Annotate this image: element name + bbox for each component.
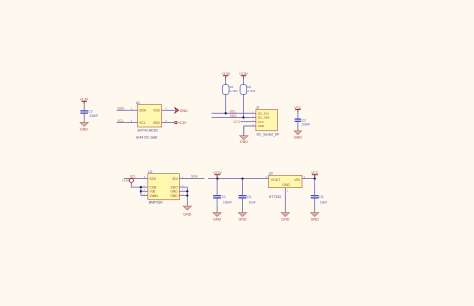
svg-text:U2: U2 xyxy=(148,170,152,174)
capacitor C4 xyxy=(239,196,247,198)
svg-text:J1: J1 xyxy=(256,106,260,110)
svg-text:SDI: SDI xyxy=(172,177,178,181)
junction xyxy=(225,112,227,114)
resistor R1 xyxy=(222,85,229,95)
junction xyxy=(216,177,218,179)
wire U3 GND pin xyxy=(284,188,286,213)
svg-text:C1: C1 xyxy=(222,195,226,199)
ground (C1) xyxy=(213,213,221,222)
wire xyxy=(242,198,244,212)
wire xyxy=(83,104,85,111)
power VCC (C2) xyxy=(294,106,302,112)
ground (C3) xyxy=(80,122,88,131)
svg-text:10uF: 10uF xyxy=(248,201,255,205)
svg-text:GND: GND xyxy=(240,140,248,144)
regulator U3 body xyxy=(269,175,302,187)
wire U3 VIN to VCC xyxy=(302,178,315,180)
capacitor C5 xyxy=(311,196,319,198)
svg-text:+3.3V: +3.3V xyxy=(79,97,89,101)
svg-text:VCC: VCC xyxy=(311,171,319,175)
svg-text:GND: GND xyxy=(180,109,188,113)
wire xyxy=(242,78,244,85)
wire xyxy=(225,78,227,85)
wire vertical tie xyxy=(140,187,142,195)
svg-text:VDD: VDD xyxy=(153,121,161,125)
ground (C4) xyxy=(238,213,246,222)
svg-text:+3.3V: +3.3V xyxy=(213,171,223,175)
svg-text:C3: C3 xyxy=(88,110,92,114)
svg-text:10uF: 10uF xyxy=(320,201,327,205)
op-amp U1 body xyxy=(138,105,162,127)
wire xyxy=(297,122,299,131)
transistor U2 body xyxy=(148,174,179,200)
svg-text:VOUT: VOUT xyxy=(271,178,280,182)
svg-text:GND: GND xyxy=(239,218,247,222)
svg-text:VIN: VIN xyxy=(294,178,300,182)
svg-text:SHT4x-AD1B: SHT4x-AD1B xyxy=(137,128,158,132)
svg-text:SCL: SCL xyxy=(139,121,146,125)
svg-text:GND: GND xyxy=(183,212,191,216)
wire xyxy=(216,198,218,212)
junction xyxy=(241,177,243,179)
svg-text:GND: GND xyxy=(258,124,264,128)
wire R1 to SCL xyxy=(225,94,227,113)
wire Vddio stub xyxy=(141,195,148,197)
svg-text:SDA: SDA xyxy=(191,175,198,179)
junction xyxy=(242,116,244,118)
svg-text:Vddio: Vddio xyxy=(150,194,159,198)
svg-text:GND: GND xyxy=(213,218,221,222)
svg-text:+3.3V: +3.3V xyxy=(239,72,249,76)
svg-text:GND: GND xyxy=(294,136,302,140)
power +3.3V (C3) xyxy=(79,97,89,104)
wire xyxy=(242,179,244,196)
svg-text:4.7kΩ: 4.7kΩ xyxy=(247,89,256,93)
svg-text:U3: U3 xyxy=(269,172,273,176)
svg-text:I2C_Socket_SP: I2C_Socket_SP xyxy=(257,132,280,136)
capacitor C1 xyxy=(213,196,221,198)
wire GND2 stub xyxy=(179,195,187,197)
svg-text:+3.3V: +3.3V xyxy=(221,72,231,76)
svg-text:GND: GND xyxy=(170,194,178,198)
svg-text:100nF: 100nF xyxy=(223,201,232,205)
svg-text:SDA: SDA xyxy=(118,106,125,110)
svg-text:100nF: 100nF xyxy=(301,122,310,126)
power +3.3V (rail) xyxy=(213,171,223,179)
svg-text:SCL: SCL xyxy=(118,119,124,123)
wire SCL bus xyxy=(212,112,256,114)
svg-text:BMP280: BMP280 xyxy=(149,201,163,205)
svg-text:HT7333: HT7333 xyxy=(269,195,281,199)
wire R2 to SDA xyxy=(242,94,244,117)
junction xyxy=(140,186,142,188)
ground (U2) xyxy=(183,206,191,216)
ground (socket) xyxy=(240,136,249,145)
wire SDA to U1 pin 1 xyxy=(117,109,138,111)
svg-text:C5: C5 xyxy=(319,195,323,199)
svg-text:GND: GND xyxy=(311,218,319,222)
wire U1 pin 4 to GND flag xyxy=(162,109,175,111)
wire xyxy=(216,179,218,196)
svg-text:+3.3V: +3.3V xyxy=(178,121,188,125)
wire U1 pin 3 to +3.3V flag xyxy=(162,122,175,124)
svg-text:VCC: VCC xyxy=(233,120,240,124)
svg-text:VSS: VSS xyxy=(153,108,160,112)
ground flag (U1 VSS) xyxy=(175,108,188,113)
junction xyxy=(140,190,142,192)
ground (C2) xyxy=(294,131,302,140)
svg-text:+3.3V: +3.3V xyxy=(122,179,129,183)
svg-text:SDA: SDA xyxy=(139,108,147,112)
svg-text:U1: U1 xyxy=(136,101,140,105)
wire socket GND pin xyxy=(244,126,256,136)
wire SDO stub xyxy=(179,186,187,188)
capacitor C3 xyxy=(80,111,88,113)
ground (U3) xyxy=(281,213,289,222)
capacitor C2 xyxy=(295,119,302,121)
wire xyxy=(314,198,316,212)
ground (C5) xyxy=(311,213,319,222)
power flag +3.3V (U1 VDD) xyxy=(175,121,187,125)
junction xyxy=(314,177,316,179)
svg-text:GND: GND xyxy=(80,127,88,131)
power +3.3V (R2) xyxy=(239,72,249,79)
wire xyxy=(297,112,299,119)
power +3.3V (R1) xyxy=(221,72,231,79)
svg-text:C4: C4 xyxy=(247,195,251,199)
junction xyxy=(186,194,188,196)
wire power to CSB/Vdd/Vddio xyxy=(131,182,148,187)
wire VCC to socket xyxy=(241,121,256,123)
junction xyxy=(186,190,188,192)
connector J1 body xyxy=(256,109,278,130)
svg-text:100nF: 100nF xyxy=(89,114,98,118)
wire xyxy=(83,114,85,123)
wire SCL to U1 pin 2 xyxy=(117,122,138,124)
svg-text:SDA: SDA xyxy=(230,114,237,118)
power flag +3.3V (U2 supply) xyxy=(122,178,133,182)
power VCC (rail) xyxy=(311,171,319,179)
wire 3.3V rail xyxy=(208,178,269,180)
svg-text:SCK: SCK xyxy=(150,177,158,181)
svg-text:4.7kΩ: 4.7kΩ xyxy=(230,89,239,93)
wire Vdd stub xyxy=(141,190,148,192)
wire U2 SDI to SDA xyxy=(179,178,204,180)
svg-text:0x44 I2C addr: 0x44 I2C addr xyxy=(136,135,158,139)
svg-text:GND: GND xyxy=(281,218,289,222)
wire xyxy=(314,179,316,196)
wire SCL to U2 SCK xyxy=(124,178,148,180)
wire vertical tie to ground xyxy=(186,187,188,206)
resistor R2 xyxy=(240,85,247,95)
wire GND stub xyxy=(179,190,187,192)
wire SDA bus xyxy=(212,117,256,119)
svg-text:GND: GND xyxy=(282,183,290,187)
